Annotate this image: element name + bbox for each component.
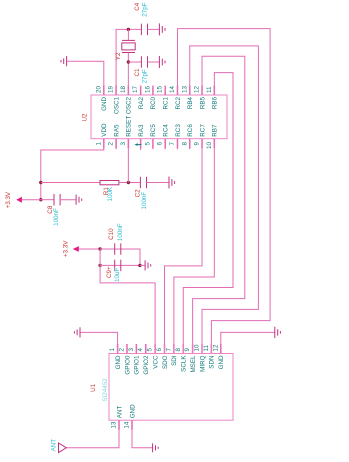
svg-text:15: 15 <box>157 86 164 93</box>
node +3.3V junction upper <box>39 198 42 201</box>
capacitor C1 <box>140 56 142 68</box>
svg-text:GPIO1: GPIO1 <box>134 355 141 375</box>
wire +3.3V to U1 pin5 VCC <box>100 249 155 354</box>
svg-text:RA3: RA3 <box>138 124 145 137</box>
node OSC2 junction <box>127 60 130 63</box>
node C10 rail left junction <box>98 247 101 250</box>
svg-text:100nF: 100nF <box>53 208 60 226</box>
svg-text:RA2: RA2 <box>138 96 145 109</box>
capacitor C9 <box>114 260 116 272</box>
wire U2 pin15 stub <box>164 88 166 96</box>
svg-text:4: 4 <box>137 348 144 352</box>
wire U1 pin2 stub <box>126 344 128 354</box>
svg-text:GND: GND <box>101 97 108 111</box>
svg-text:10uF: 10uF <box>114 268 121 282</box>
wire U1 pin1 GND <box>80 332 118 353</box>
node OSC1 junction <box>127 28 130 31</box>
wire U2 pin17 stub <box>140 88 142 96</box>
svg-text:27pF: 27pF <box>142 69 149 83</box>
svg-text:12: 12 <box>212 344 219 351</box>
svg-text:5: 5 <box>147 348 154 352</box>
svg-text:SCLK: SCLK <box>181 355 188 372</box>
wire U2 pin5 stub <box>152 139 154 150</box>
svg-text:3: 3 <box>128 348 135 352</box>
wire C4 to ground <box>148 28 160 30</box>
svg-text:16: 16 <box>144 86 151 93</box>
svg-text:ANT: ANT <box>116 406 123 419</box>
svg-text:SI24452: SI24452 <box>102 378 109 402</box>
svg-text:RC1: RC1 <box>163 96 170 109</box>
wire U2 pin18 OSC2 <box>127 53 129 96</box>
svg-text:10: 10 <box>194 344 201 351</box>
svg-text:RA5: RA5 <box>113 124 120 137</box>
svg-text:GND: GND <box>129 404 136 418</box>
wire C8 to ground <box>60 199 76 201</box>
svg-text:18: 18 <box>120 86 127 93</box>
wire U2 pin12 RB5 to U1 pin9 NSEL <box>193 56 245 353</box>
svg-text:VDD: VDD <box>101 123 108 137</box>
resistor R1 <box>100 181 119 185</box>
wire U1 pin12 GND <box>221 332 275 353</box>
wire U2 pin1 VDD <box>41 139 104 200</box>
wire C9 rail <box>100 264 140 266</box>
svg-text:14: 14 <box>124 421 131 428</box>
svg-text:C4: C4 <box>134 2 141 11</box>
wire U2 pin19 OSC1 <box>116 29 141 95</box>
wire U2 pin4 stub with input arrow <box>140 139 142 150</box>
svg-text:SDI: SDI <box>171 355 178 366</box>
svg-text:7: 7 <box>169 141 176 145</box>
wire U2 pin8 stub <box>189 139 191 150</box>
svg-text:100K: 100K <box>107 186 114 201</box>
svg-text:RC7: RC7 <box>199 124 206 137</box>
svg-text:10: 10 <box>206 141 213 148</box>
svg-text:5: 5 <box>144 141 151 145</box>
svg-text:1: 1 <box>95 141 102 145</box>
ground C9 <box>144 260 146 270</box>
svg-text:11: 11 <box>206 86 213 93</box>
svg-text:20: 20 <box>95 86 102 93</box>
U2 pin stubs <box>103 86 105 96</box>
svg-text:RC6: RC6 <box>187 124 194 137</box>
power +3.3V lower arrow <box>73 246 79 252</box>
svg-text:14: 14 <box>169 86 176 93</box>
svg-text:C9+: C9+ <box>106 266 113 278</box>
wire U1 pin14 to ground <box>132 420 153 448</box>
U1 pin stubs <box>117 344 119 354</box>
crystal Y2 <box>127 29 129 40</box>
IC U1 box <box>109 354 233 421</box>
svg-text:C1: C1 <box>134 68 141 77</box>
svg-text:C10: C10 <box>108 228 115 240</box>
capacitor C4 <box>140 24 142 36</box>
svg-text:SDN: SDN <box>209 356 216 369</box>
wire OSC2 to C1 <box>128 61 141 63</box>
wire R1 to C2 <box>119 182 140 184</box>
svg-text:U1: U1 <box>90 383 97 392</box>
svg-text:VCC: VCC <box>152 355 159 369</box>
node VDD-R1 junction <box>39 181 42 184</box>
wire C2 to ground <box>147 182 170 184</box>
wire U1 pin3 stub <box>135 344 137 354</box>
ground C1 <box>158 56 160 68</box>
wire R1 rail <box>41 182 100 184</box>
wire U2 pin13 RB4 to U1 pin10 NIRQ <box>190 46 259 354</box>
svg-text:SDO: SDO <box>162 355 169 369</box>
svg-text:ANT: ANT <box>50 439 57 452</box>
svg-text:RB7: RB7 <box>212 124 219 137</box>
svg-text:100nF: 100nF <box>141 192 148 210</box>
capacitor C8 <box>53 194 55 206</box>
capacitor C2 <box>139 177 141 189</box>
svg-text:27pF: 27pF <box>142 2 149 16</box>
svg-text:1: 1 <box>109 348 116 352</box>
svg-text:12: 12 <box>194 86 201 93</box>
svg-text:OSC2: OSC2 <box>126 96 133 114</box>
svg-text:17: 17 <box>132 86 139 93</box>
wire C10 rail <box>100 249 140 265</box>
svg-text:OSC1: OSC1 <box>113 96 120 114</box>
svg-text:MSEL: MSEL <box>190 355 197 373</box>
wire U2 pin2 stub <box>115 139 117 150</box>
svg-text:GPIO2: GPIO2 <box>143 355 150 375</box>
antenna ANT <box>59 443 67 453</box>
power +3.3V upper arrow <box>16 197 22 203</box>
svg-text:13: 13 <box>111 421 118 428</box>
svg-text:100nF: 100nF <box>117 223 124 241</box>
wire C9 to ground <box>140 264 145 266</box>
wire U1 pin13 to antenna <box>66 420 119 448</box>
node RESET junction <box>127 181 130 184</box>
svg-text:2: 2 <box>108 141 115 145</box>
ground U1 pin1 <box>79 327 81 337</box>
svg-text:RC5: RC5 <box>150 124 157 137</box>
node C9 rail left junction <box>98 264 101 267</box>
svg-text:9: 9 <box>184 348 191 352</box>
svg-text:7: 7 <box>165 348 172 352</box>
svg-text:GND: GND <box>218 355 225 369</box>
IC U2 box <box>91 95 227 139</box>
wire U2 pin3 RESET <box>127 139 129 183</box>
wire U1 pin4 stub <box>145 344 147 354</box>
svg-text:8: 8 <box>181 141 188 145</box>
ground U1 pin14 <box>152 443 154 452</box>
wire U2 pin7 stub <box>176 139 178 150</box>
svg-text:6: 6 <box>157 141 164 145</box>
svg-text:9: 9 <box>194 141 201 145</box>
svg-text:RC4: RC4 <box>163 124 170 137</box>
ground top-left <box>66 56 68 66</box>
svg-text:U2: U2 <box>82 113 89 122</box>
wire U2 pin6 stub <box>164 139 166 150</box>
svg-text:GPIO0: GPIO0 <box>124 355 131 375</box>
wire U2 pin9 RC7 to U1 pin6 SDO <box>165 139 203 354</box>
svg-text:+3.3V: +3.3V <box>63 240 70 257</box>
svg-text:19: 19 <box>108 86 115 93</box>
svg-text:RC2: RC2 <box>175 96 182 109</box>
svg-text:MIRQ: MIRQ <box>199 355 206 371</box>
wire C1 to ground <box>148 61 160 63</box>
wire U2 pin14 RC2 to U1 pin11 SDN <box>177 29 270 354</box>
svg-text:11: 11 <box>203 344 210 351</box>
ground C2 <box>168 177 170 189</box>
svg-text:RB5: RB5 <box>199 96 206 109</box>
svg-text:RC3: RC3 <box>175 124 182 137</box>
svg-text:RESET: RESET <box>126 116 133 137</box>
ground U1 pin12 <box>274 327 276 338</box>
wire to C8 <box>41 199 54 201</box>
svg-text:RB6: RB6 <box>212 96 219 109</box>
wire U2 pin20 GND <box>67 61 104 95</box>
capacitor C10 <box>114 243 116 255</box>
wire U2 pin11 RB6 to U1 pin8 SCLK <box>183 73 233 354</box>
svg-text:RC0: RC0 <box>150 96 157 109</box>
ground C4 <box>158 23 160 35</box>
node C9 rail right junction <box>138 264 141 267</box>
svg-text:13: 13 <box>181 86 188 93</box>
svg-text:GND: GND <box>115 355 122 369</box>
wire U2 pin10 RB7 to U1 pin7 SDI <box>174 139 214 354</box>
svg-text:2: 2 <box>118 348 125 352</box>
svg-text:Y2: Y2 <box>115 52 122 60</box>
svg-text:8: 8 <box>175 348 182 352</box>
svg-text:6: 6 <box>156 348 163 352</box>
wire U2 pin16 stub <box>152 88 154 96</box>
svg-text:RB4: RB4 <box>187 96 194 109</box>
ground C8 <box>75 195 77 205</box>
svg-text:+3.3V: +3.3V <box>5 191 12 208</box>
svg-text:3: 3 <box>120 141 127 145</box>
